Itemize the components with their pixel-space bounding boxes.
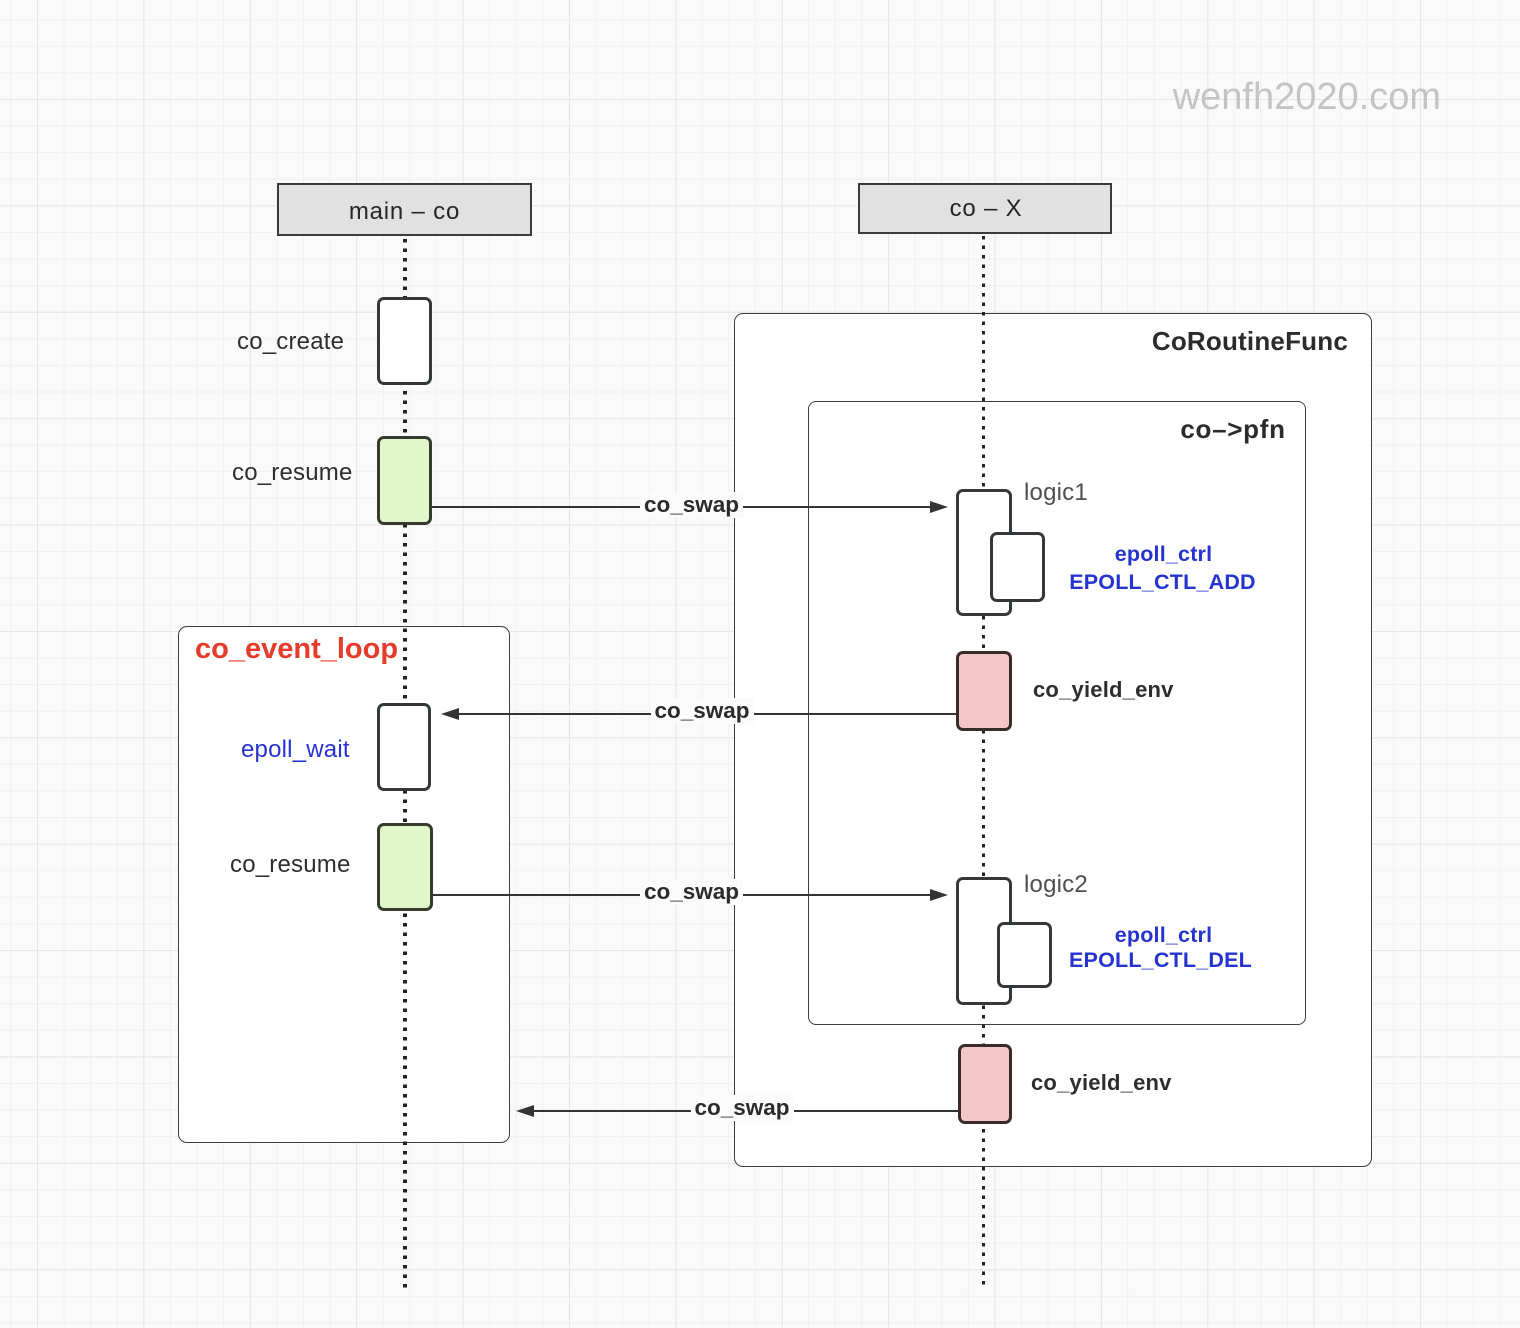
frame co->pfn (808, 401, 1306, 1025)
activation logic2 (956, 877, 1012, 1005)
arrowhead right 3 (930, 889, 948, 901)
label co_event_loop (195, 633, 398, 666)
label co_swap 2 (651, 698, 754, 724)
wire co_swap 1 (co_resume -> logic1) (432, 506, 934, 508)
label co_swap 4 (691, 1095, 794, 1121)
wire co_swap 3 (co_resume -> logic2) (433, 894, 934, 896)
lifeline co-X (982, 236, 985, 1288)
arrowhead left 4 (516, 1105, 534, 1117)
activation logic2 nested (997, 922, 1052, 988)
label logic1 (1024, 479, 1088, 507)
activation co_create (377, 297, 432, 385)
wire co_swap 2 (co_yield_env -> epoll_wait) (459, 713, 956, 715)
activation epoll_wait (377, 703, 431, 791)
header co - X (858, 183, 1112, 234)
lifeline main-co (403, 239, 406, 1288)
label logic2 (1024, 871, 1088, 899)
activation co_yield_env 2 (pink) (958, 1044, 1012, 1124)
label co_resume 1 (232, 459, 353, 487)
label epoll_ctrl 1 (1014, 542, 1314, 567)
label co_yield_env 1 (1033, 677, 1174, 703)
label co_swap 3 (640, 879, 743, 905)
label co_swap 1 (640, 492, 743, 518)
activation co_resume 1 (green) (377, 436, 432, 525)
label EPOLL_CTL_ADD (1013, 570, 1313, 595)
label epoll_wait (241, 736, 350, 764)
watermark wenfh2020.com (1041, 76, 1441, 119)
activation logic1 nested (990, 532, 1045, 602)
arrowhead right 1 (930, 501, 948, 513)
frame CoRoutineFunc (734, 313, 1372, 1167)
label co_yield_env 2 (1031, 1070, 1172, 1096)
label co_resume 2 (230, 851, 351, 879)
label co->pfn (1033, 414, 1433, 445)
label epoll_ctrl 2 (1014, 923, 1314, 948)
header main - co (277, 183, 532, 236)
activation co_yield_env 1 (pink) (956, 651, 1012, 731)
label CoRoutineFunc (948, 326, 1348, 357)
arrowhead left 2 (441, 708, 459, 720)
frame co_event_loop (178, 626, 510, 1143)
activation co_resume 2 (green) (377, 823, 433, 911)
activation logic1 (956, 489, 1012, 616)
wire co_swap 4 (co_yield_env -> co_event_loop) (534, 1110, 958, 1112)
label EPOLL_CTL_DEL (1011, 948, 1311, 973)
label co_create (237, 328, 344, 356)
